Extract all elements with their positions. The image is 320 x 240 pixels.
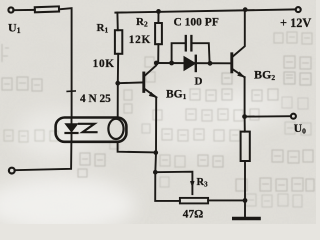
wire base node to BG1 base xyxy=(118,81,144,84)
resistor R2 xyxy=(157,11,159,23)
svg-text:47Ω: 47Ω xyxy=(183,208,203,220)
wire terminal to input resistor xyxy=(13,9,35,11)
optocoupler end-cap ellipse xyxy=(108,119,123,139)
ghost show-through text blocks (decorative) xyxy=(2,32,314,207)
wire bottom terminal to LED cathode xyxy=(15,142,71,171)
terminal U1 bottom xyxy=(9,168,15,174)
terminal U1 top xyxy=(8,7,13,12)
transistor BG2 xyxy=(230,54,233,72)
svg-text:10K: 10K xyxy=(93,58,115,70)
node ground junction xyxy=(243,198,248,203)
node output xyxy=(242,114,247,119)
node rail/R2 xyxy=(156,9,161,14)
node cap branch right xyxy=(208,61,213,66)
svg-text:+ 12V: + 12V xyxy=(280,16,311,30)
diode D xyxy=(184,57,195,71)
node cap branch left xyxy=(169,61,174,66)
power rail +12V xyxy=(115,9,295,12)
potentiometer R3 wiper branch xyxy=(155,172,192,195)
tick on LED anode wire xyxy=(67,90,75,92)
node wiper branch xyxy=(153,170,158,175)
phototransistor inside 4N25 xyxy=(79,124,97,132)
ground xyxy=(244,200,246,217)
resistor Rin (unlabeled input series) xyxy=(35,6,59,12)
capacitor C branch wire left xyxy=(172,43,185,63)
node collector BG1 xyxy=(154,61,159,66)
wire BG1 emitter down xyxy=(155,97,180,200)
capacitor C branch wire right xyxy=(192,43,210,63)
svg-text:D: D xyxy=(195,76,203,88)
node collector BG1 / R2 bottom xyxy=(156,62,231,64)
wire input resistor to LED anode column xyxy=(59,8,72,117)
svg-text:4 N 25: 4 N 25 xyxy=(80,93,111,105)
node rail/BG2 collector xyxy=(243,7,248,12)
terminal +12V xyxy=(296,7,301,12)
potentiometer R3 body xyxy=(180,198,208,204)
resistor R1 xyxy=(116,13,118,31)
wire R3 right to ground node xyxy=(208,199,245,201)
wire opto emitter to BG1 emitter column xyxy=(118,142,156,153)
wire output node to terminal xyxy=(245,115,291,117)
svg-text:12K: 12K xyxy=(129,34,151,46)
wire phototransistor collector up to base node xyxy=(117,83,119,117)
node base BG1 xyxy=(115,81,120,86)
node opto emitter junction xyxy=(154,150,159,155)
wire BG2 emitter down to output node xyxy=(244,77,246,116)
transistor BG1 xyxy=(142,73,145,91)
terminal U0 xyxy=(291,114,296,119)
svg-text:C 100 PF: C 100 PF xyxy=(174,16,219,28)
resistor R4 (unlabeled emitter load) xyxy=(244,117,246,132)
optocoupler 4N25 body xyxy=(56,118,127,142)
capacitor C plates xyxy=(185,36,187,50)
LED inside 4N25 xyxy=(71,118,73,124)
